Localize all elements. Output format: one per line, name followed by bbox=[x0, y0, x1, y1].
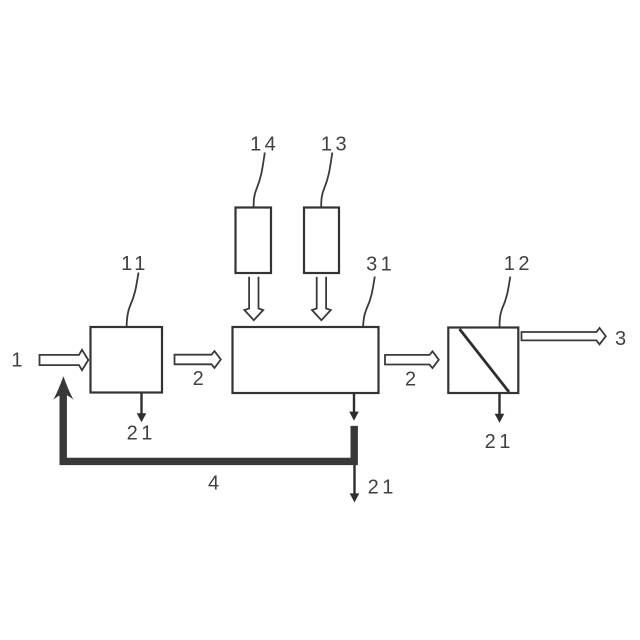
box 11 bbox=[91, 327, 163, 393]
svg-text:31: 31 bbox=[366, 254, 395, 276]
thin purge arrow below recycle line bbox=[353, 465, 355, 494]
leader line to box 12 bbox=[500, 277, 511, 328]
hollow down arrow from box 13 to box 31 bbox=[312, 277, 331, 321]
leader line to box 11 bbox=[127, 273, 139, 328]
hollow output arrow 3 bbox=[522, 328, 606, 344]
svg-text:4: 4 bbox=[208, 473, 223, 495]
svg-text:21: 21 bbox=[127, 423, 156, 445]
leader line to box 31 bbox=[363, 277, 375, 328]
hollow arrow 2 from box 11 to box 31 bbox=[175, 351, 221, 368]
box 13 bbox=[304, 208, 339, 274]
thick recycle line 4 bbox=[63, 392, 354, 462]
svg-text:21: 21 bbox=[368, 477, 397, 499]
box 12 bbox=[448, 328, 518, 394]
hollow input arrow 1 bbox=[40, 350, 89, 370]
svg-text:2: 2 bbox=[405, 369, 420, 391]
thick recycle arrowhead bbox=[53, 376, 73, 400]
svg-text:1: 1 bbox=[11, 350, 26, 372]
svg-text:13: 13 bbox=[321, 133, 350, 155]
diagonal inside box 12 bbox=[460, 329, 510, 392]
leader line to box 13 bbox=[321, 153, 332, 208]
svg-text:3: 3 bbox=[615, 328, 630, 350]
hollow arrow 2 from box 31 to box 12 bbox=[385, 351, 439, 368]
thin arrow below box 31 into recycle line bbox=[353, 394, 355, 413]
svg-text:21: 21 bbox=[485, 431, 514, 453]
thin purge arrow below box 12 bbox=[498, 394, 500, 415]
svg-text:14: 14 bbox=[250, 133, 279, 155]
svg-text:11: 11 bbox=[121, 253, 149, 275]
svg-text:2: 2 bbox=[193, 368, 208, 390]
leader line to box 14 bbox=[254, 153, 265, 208]
thin purge arrow below box 11 bbox=[140, 394, 142, 415]
hollow down arrow from box 14 to box 31 bbox=[244, 277, 263, 321]
svg-text:12: 12 bbox=[504, 253, 533, 275]
box 14 bbox=[236, 208, 272, 274]
box 31 bbox=[233, 327, 379, 393]
